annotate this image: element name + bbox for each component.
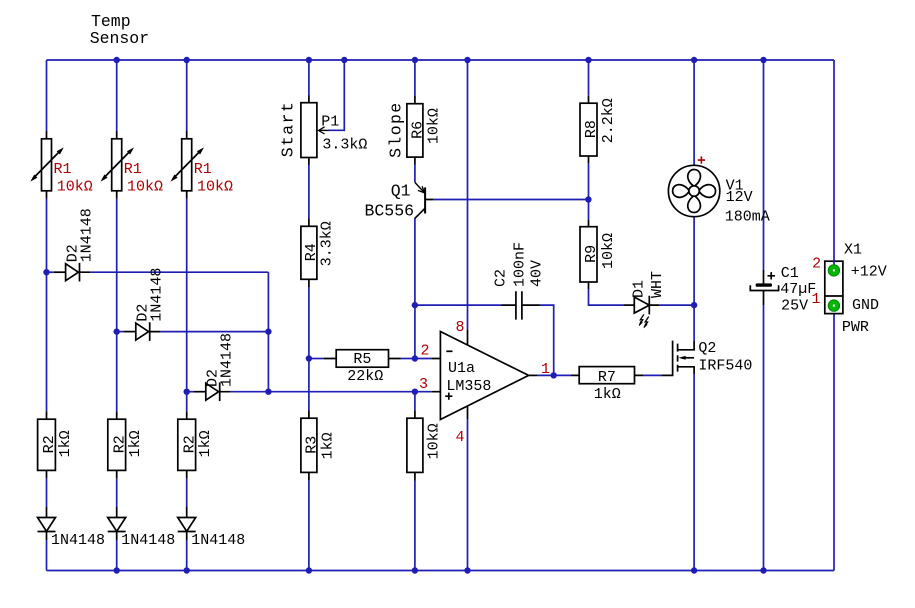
wire Q1 base to R8 R9 node [433, 199, 588, 201]
wire D2a cathode to bus [90, 271, 268, 273]
svg-text:Q2: Q2 [698, 340, 716, 357]
svg-text:1: 1 [811, 291, 820, 308]
junction top C [184, 57, 190, 63]
svg-text:R2: R2 [111, 435, 128, 453]
svg-text:R7: R7 [598, 369, 616, 386]
thermistor R1 (col B) [101, 131, 135, 199]
wire R9 down corner to D1 [589, 289, 625, 305]
svg-text:10kΩ: 10kΩ [127, 179, 163, 196]
svg-text:1N4148: 1N4148 [51, 532, 105, 549]
svg-text:R8: R8 [583, 120, 600, 138]
svg-text:Start: Start [279, 101, 298, 158]
pin 1 pad (X1) [828, 300, 839, 311]
junction bus D2b [265, 328, 271, 334]
wire R5 left stub [309, 358, 324, 360]
svg-text:10kΩ: 10kΩ [600, 233, 617, 269]
junction D2a anode [43, 269, 49, 275]
svg-text:Slope: Slope [386, 101, 405, 158]
svg-text:R3: R3 [304, 436, 321, 454]
wire fan V1 to D1 node [693, 217, 695, 305]
wire X1 pin1 to bottom rail [833, 311, 835, 570]
wire op-amp output to R7 [537, 374, 571, 376]
wire top rail to R8 [588, 60, 590, 96]
svg-text:4: 4 [455, 429, 464, 446]
wire R3 to bottom rail [308, 480, 310, 571]
junction D2b anode [114, 328, 120, 334]
svg-text:LM358: LM358 [446, 378, 491, 395]
svg-text:1kΩ: 1kΩ [319, 432, 336, 459]
wire D2a anode stub [47, 271, 54, 273]
diode 1N4148 bottom (col B) [108, 507, 126, 540]
wire op-amp pin4 to bottom rail [467, 419, 469, 571]
junction output node [551, 372, 557, 378]
svg-text:10kΩ: 10kΩ [57, 179, 93, 196]
svg-text:R9: R9 [583, 245, 600, 263]
svg-text:R1: R1 [124, 161, 142, 178]
svg-text:3: 3 [419, 376, 428, 393]
wire R2c to diode [186, 478, 188, 507]
junction bottom C1 [760, 567, 766, 573]
wire R6 to Q1 emitter [414, 165, 416, 183]
capacitor C1 [750, 270, 778, 305]
junction bottom Q2 [691, 567, 697, 573]
MOSFET Q2 [661, 341, 694, 376]
wire diode to bottom rail col C [186, 540, 188, 571]
junction top wiper [341, 57, 347, 63]
diode D2 (col C) [194, 382, 230, 401]
potentiometer P1 [301, 96, 329, 166]
wire top rail [47, 59, 835, 61]
fan V1 [668, 165, 719, 216]
svg-text:R2: R2 [41, 435, 58, 453]
svg-text:P1: P1 [321, 114, 339, 131]
polarity plus (fan) [698, 156, 705, 163]
junction top C1 [760, 57, 766, 63]
resistor R2 (col C) [178, 411, 196, 478]
wire Q2 source to bottom rail [693, 374, 695, 571]
wire pin2 node to op-amp [415, 358, 432, 360]
junction bus D2c [265, 389, 271, 395]
thermistor R1 (col C) [171, 131, 205, 199]
wire diode to bottom rail col A [46, 540, 48, 571]
junction top fan [691, 57, 697, 63]
svg-text:1: 1 [541, 361, 550, 378]
svg-text:R6: R6 [410, 121, 427, 139]
wire top rail to R6 [414, 60, 416, 96]
junction bottom R3 [306, 567, 312, 573]
junction R5 left [306, 355, 312, 361]
wire C1 to bottom rail [763, 305, 765, 571]
LED D1 [624, 296, 659, 329]
wire C2 right to feedback corner [540, 305, 554, 375]
svg-text:2.2kΩ: 2.2kΩ [600, 98, 617, 143]
resistor R4 [301, 219, 317, 288]
svg-text:100nF: 100nF [511, 242, 528, 287]
svg-text:8: 8 [455, 319, 464, 336]
svg-text:3.3kΩ: 3.3kΩ [318, 221, 335, 266]
resistor R6 [407, 96, 423, 165]
resistor R7 [571, 367, 643, 384]
svg-text:3.3kΩ: 3.3kΩ [322, 137, 367, 154]
resistor R3 [301, 410, 317, 480]
svg-text:1N4148: 1N4148 [191, 532, 245, 549]
svg-text:10kΩ: 10kΩ [425, 108, 442, 144]
resistor R2 (col B) [108, 411, 126, 478]
wire left edge to R1a [46, 60, 48, 131]
resistor R2 (col A) [38, 411, 56, 478]
resistor R8 [580, 96, 597, 164]
svg-text:1N4148: 1N4148 [149, 268, 166, 322]
wire Q1 collector down to C2 node [414, 218, 416, 305]
wire top rail to fan V1 [693, 60, 695, 165]
svg-text:40V: 40V [529, 260, 546, 287]
svg-text:C2: C2 [493, 269, 510, 287]
svg-text:1kΩ: 1kΩ [197, 430, 214, 457]
svg-text:1N4148: 1N4148 [79, 208, 96, 262]
junction C2 node [412, 302, 418, 308]
connector X1 [825, 261, 843, 313]
wire R2b to diode [116, 478, 118, 507]
wire P1 to R4 [308, 165, 310, 219]
transistor Q1 [415, 182, 433, 218]
wire pin3 node to 10k resistor [414, 392, 416, 411]
wire top rail to op-amp pin8 [467, 60, 469, 330]
svg-text:1N4148: 1N4148 [121, 532, 175, 549]
wire C2 node to pin2 node [414, 305, 416, 358]
wire diode bus vertical [267, 272, 269, 392]
junction top P1 [306, 57, 312, 63]
svg-text:GND: GND [852, 297, 879, 314]
wire R4 to R5 node [308, 287, 310, 359]
wire R5 node to R3 [308, 359, 310, 411]
svg-text:R5: R5 [353, 351, 371, 368]
svg-text:1kΩ: 1kΩ [127, 430, 144, 457]
wire top rail to R1c [186, 60, 188, 131]
svg-text:BC556: BC556 [364, 201, 414, 220]
svg-text:2: 2 [812, 255, 821, 272]
wire top rail to P1 [308, 60, 310, 96]
wire D2b anode stub [117, 331, 124, 333]
svg-text:C1: C1 [781, 265, 799, 282]
svg-text:10kΩ: 10kΩ [197, 179, 233, 196]
svg-text:1N4148: 1N4148 [219, 333, 236, 387]
svg-text:R2: R2 [181, 435, 198, 453]
op-amp U1a [432, 330, 537, 420]
svg-text:1kΩ: 1kΩ [594, 386, 621, 403]
diode D2 (col B) [124, 322, 160, 341]
wire C2 left [415, 304, 502, 306]
junction base node [585, 196, 591, 202]
wire D2c cathode to op-amp pin3 [230, 391, 432, 393]
junction pin2 node [412, 355, 418, 361]
svg-text:R1: R1 [54, 161, 72, 178]
svg-text:10kΩ: 10kΩ [425, 423, 442, 459]
wire bottom rail [47, 570, 835, 572]
svg-text:+12V: +12V [851, 264, 887, 281]
resistor R9 [580, 219, 597, 289]
wire D2b cathode to bus [160, 331, 268, 333]
wire diode to bottom rail col B [116, 540, 118, 571]
thermistor R1 (col A) [30, 131, 64, 199]
junction bottom B [114, 567, 120, 573]
svg-text:Sensor: Sensor [90, 29, 149, 48]
wire D1 cathode to fan column [659, 304, 694, 306]
svg-text:PWR: PWR [842, 319, 869, 336]
diode 1N4148 bottom (col A) [38, 507, 56, 540]
svg-text:2: 2 [420, 343, 429, 360]
wire R2a to diode [46, 478, 48, 507]
svg-text:U1a: U1a [448, 360, 475, 377]
svg-text:22kΩ: 22kΩ [347, 368, 383, 385]
junction bottom C [184, 567, 190, 573]
svg-text:25V: 25V [781, 297, 808, 314]
svg-text:WHT: WHT [649, 271, 666, 298]
wire D2c anode stub [187, 391, 194, 393]
svg-text:Q1: Q1 [391, 182, 411, 201]
resistor 10k (pin3 bias) [407, 410, 423, 480]
resistor R5 [324, 350, 401, 368]
svg-text:180mA: 180mA [725, 209, 770, 226]
junction bottom 10k [412, 567, 418, 573]
wire R5 right to pin2 node [401, 358, 415, 360]
svg-text:12V: 12V [726, 189, 753, 206]
junction bottom pin4 [464, 567, 470, 573]
junction top pin8 [464, 57, 470, 63]
wire R1b to R2b [116, 199, 118, 412]
diode D2 (col A) [54, 263, 90, 282]
diode 1N4148 bottom (col C) [178, 507, 196, 540]
capacitor C2 [502, 291, 540, 319]
junction top R8 [585, 57, 591, 63]
wire top rail into X1 pin2 [833, 60, 835, 265]
wire D1 node to Q2 drain [693, 305, 695, 341]
wire R1a to D2a node [46, 199, 48, 273]
pin 2 pad (X1) [828, 265, 839, 276]
svg-text:R1: R1 [194, 161, 212, 178]
junction top B [114, 57, 120, 63]
wire top rail to C1 [763, 60, 765, 270]
junction D2c anode [184, 389, 190, 395]
wire 10k resistor to bottom rail [414, 481, 416, 571]
junction pin3 node [412, 389, 418, 395]
wire R8 to base node [588, 163, 590, 219]
wire D2a node to R2a [46, 272, 48, 411]
svg-text:1kΩ: 1kΩ [57, 430, 74, 457]
wire top rail to R1b [116, 60, 118, 131]
svg-text:X1: X1 [844, 241, 862, 258]
junction D1 fan node [691, 302, 697, 308]
svg-text:D1: D1 [630, 280, 647, 298]
svg-text:IRF540: IRF540 [698, 357, 752, 374]
junction top R6 [412, 57, 418, 63]
wire P1 wiper from top rail [328, 60, 344, 130]
svg-text:Temp: Temp [91, 12, 131, 31]
wire R7 to Q2 gate [643, 374, 661, 376]
wire R1c to R2c [186, 199, 188, 412]
